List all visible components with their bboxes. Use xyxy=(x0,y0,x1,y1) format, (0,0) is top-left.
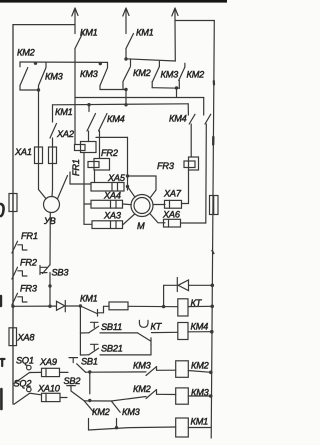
node dot xyxy=(48,284,51,287)
limit switch SQ1 xyxy=(14,365,31,383)
wire to XA4 xyxy=(84,203,91,205)
svg-text:М: М xyxy=(137,221,145,231)
node dot xyxy=(210,330,214,334)
svg-text:КМ1: КМ1 xyxy=(80,28,98,38)
svg-text:КМ1: КМ1 xyxy=(136,28,154,38)
wire control bus y306 xyxy=(13,305,57,307)
node dot xyxy=(87,103,90,106)
rail y59 xyxy=(126,59,175,61)
svg-text:FR1: FR1 xyxy=(21,231,38,241)
contactor coil KM2 xyxy=(176,361,189,378)
wire top horizontal to left rail xyxy=(13,24,75,26)
wire link x90 xyxy=(89,372,91,394)
svg-text:ХА8: ХА8 xyxy=(17,333,36,343)
svg-text:УВ: УВ xyxy=(43,216,56,226)
node dot xyxy=(37,88,40,91)
node dot xyxy=(209,394,213,398)
node dot xyxy=(79,304,82,307)
wire to FR2 xyxy=(99,131,101,159)
wire funnel mid xyxy=(51,190,54,197)
node dot xyxy=(124,103,127,106)
svg-text:SВ2: SВ2 xyxy=(64,376,81,386)
wire FR1 out xyxy=(83,153,85,225)
wire from bus A down at x126 xyxy=(125,90,127,105)
svg-text:КМ4: КМ4 xyxy=(169,114,187,124)
relay coil KM4 xyxy=(178,323,188,340)
contact KM1 (holding) xyxy=(80,306,103,316)
wire y90 right xyxy=(100,89,126,91)
left rail xyxy=(12,25,14,404)
wire y184 to brake tap xyxy=(70,183,91,185)
contact KM3 (row1) xyxy=(146,367,157,376)
wire motor lower right xyxy=(150,214,165,223)
thermal contact FR2 xyxy=(12,267,27,279)
svg-text:КМ2: КМ2 xyxy=(133,68,151,78)
svg-text:SВ11: SВ11 xyxy=(101,322,122,332)
wire to KM2 coil xyxy=(157,369,176,371)
svg-text:КМ3: КМ3 xyxy=(122,407,141,417)
svg-text:ХА10: ХА10 xyxy=(37,384,61,394)
wire FR3 feed upper xyxy=(187,104,189,115)
wire x204 down lower xyxy=(205,124,208,223)
svg-text:КМ3: КМ3 xyxy=(45,72,64,82)
svg-text:ХА5: ХА5 xyxy=(107,173,126,183)
node dot xyxy=(99,62,102,65)
contact KM1 (phase 1) xyxy=(75,34,83,63)
wire XA9 to SB1 xyxy=(60,371,69,373)
node dot xyxy=(124,88,127,91)
svg-text:FR2: FR2 xyxy=(20,258,37,268)
wire x75 vertical xyxy=(74,62,76,145)
wire KM2/KM3 bottoms xyxy=(20,89,39,91)
svg-text:FR1: FR1 xyxy=(71,159,81,176)
node dot xyxy=(11,305,14,308)
svg-text:КТ: КТ xyxy=(151,322,163,332)
wire KT contact to KM4 coil xyxy=(152,331,178,333)
wire SB2 out xyxy=(84,397,146,402)
contact KM2 (row2) xyxy=(146,390,157,399)
resistor (XA2 branch) xyxy=(49,147,57,164)
wire x80 down xyxy=(79,306,81,355)
resistor XA10 xyxy=(42,393,61,401)
resistor XA4 xyxy=(91,200,123,208)
bus smudge 2 xyxy=(212,137,215,145)
node dot xyxy=(210,305,214,309)
relay coil KT xyxy=(178,299,188,316)
node dot xyxy=(48,305,51,308)
resistor XA5 xyxy=(91,183,124,192)
bus A (y62) xyxy=(20,61,108,63)
node dot xyxy=(126,174,129,177)
wire FR label stub xyxy=(69,172,71,184)
fuse left xyxy=(9,194,17,212)
fuse right xyxy=(210,196,219,215)
bus tick xyxy=(212,251,214,254)
wire KT to bus xyxy=(188,305,212,307)
node dot xyxy=(209,371,213,375)
bus smudge 1 xyxy=(213,81,215,85)
contact KM2 (third) xyxy=(179,63,185,88)
resistor XA3 xyxy=(92,221,123,229)
right bus xyxy=(211,21,214,439)
svg-text:FR2: FR2 xyxy=(101,148,118,158)
node dot xyxy=(211,284,215,288)
contact KM4 (second pair) xyxy=(189,114,211,124)
button SB21 xyxy=(80,344,98,355)
wire diode branch xyxy=(164,284,177,286)
svg-text:ХА3: ХА3 xyxy=(103,211,122,221)
diode VD1 xyxy=(57,301,66,312)
node dot xyxy=(34,62,37,65)
contact KM3 (third) xyxy=(152,61,159,87)
node dot xyxy=(88,399,91,402)
wire L3 to right bus xyxy=(175,20,214,22)
wire y137 xyxy=(96,136,128,138)
wire y88 xyxy=(152,87,179,90)
contact KM2 (interlock) xyxy=(84,401,94,430)
wire XA1 down xyxy=(38,164,40,190)
wire XA2 down xyxy=(52,164,54,190)
svg-text:FR3: FR3 xyxy=(157,161,175,171)
button SB2 xyxy=(67,386,85,401)
wire to bus B xyxy=(176,88,178,97)
wire funnel right xyxy=(58,176,68,199)
svg-text:КМ1: КМ1 xyxy=(80,294,98,304)
thermal contact FR3 xyxy=(12,293,27,305)
button SB1 xyxy=(69,358,86,373)
button SB11 xyxy=(80,322,98,333)
wire up to KT contact xyxy=(150,344,152,355)
svg-text:КМ4: КМ4 xyxy=(107,114,125,124)
brake coil YB xyxy=(44,197,60,213)
svg-text:КМ2: КМ2 xyxy=(187,70,205,80)
fuse XA8 xyxy=(9,328,17,346)
phase arrow L3 xyxy=(172,8,178,21)
wire to motor top xyxy=(128,176,157,198)
button SB3 xyxy=(40,265,50,275)
resistor XA7 xyxy=(165,200,182,208)
wire KM4 to bus xyxy=(188,331,212,333)
node dot xyxy=(126,185,129,188)
contact KM1 (brake branch) xyxy=(50,105,57,147)
resistor XA9 xyxy=(42,368,60,376)
svg-text:КМ3: КМ3 xyxy=(80,69,99,79)
wire to KM3 coil xyxy=(157,393,176,395)
wire down to XA1 xyxy=(38,90,40,147)
resistor XA1 xyxy=(35,147,43,164)
wire resistor to KT xyxy=(128,305,178,307)
wire motor right xyxy=(153,204,165,206)
bottom rail xyxy=(89,427,176,430)
wire after diode xyxy=(65,305,80,307)
contactor coil KM1 xyxy=(176,418,189,437)
contact KM3 xyxy=(39,62,47,90)
wire XA3 to motor xyxy=(123,214,135,225)
svg-text:КМ3: КМ3 xyxy=(133,361,152,371)
top scan border xyxy=(0,0,227,3)
contact KM4 pair xyxy=(87,105,107,131)
wire KM1 coil to bus xyxy=(188,427,211,429)
wire diode branch vertical xyxy=(163,285,165,306)
wire FR2 out xyxy=(94,170,96,183)
svg-text:SВ1: SВ1 xyxy=(81,357,98,367)
wire x127 down xyxy=(127,137,129,190)
svg-text:SQ2: SQ2 xyxy=(14,379,32,389)
svg-text:КМ4: КМ4 xyxy=(191,322,209,332)
heater FR3 xyxy=(184,157,199,170)
phase arrow L1 xyxy=(72,8,78,34)
svg-text:ХА9: ХА9 xyxy=(39,357,57,367)
node dot xyxy=(115,426,118,429)
wire XA5 to motor xyxy=(128,187,135,197)
node dot xyxy=(88,370,91,373)
wire KM3 coil to bus xyxy=(188,395,210,397)
svg-text:ХА1: ХА1 xyxy=(14,147,32,157)
motor M xyxy=(131,195,153,217)
wire SB3 down xyxy=(49,273,51,307)
wire to XA3 xyxy=(84,223,92,225)
wire to KT coil xyxy=(104,305,110,307)
bus C (y104.8) xyxy=(53,104,189,105)
margin mark 1 xyxy=(1,204,4,216)
wire XA10 to SB2 xyxy=(60,397,67,399)
wire YB down xyxy=(49,213,51,265)
svg-text:ХА2: ХА2 xyxy=(56,129,74,139)
wire SQ2 to XA10 xyxy=(31,393,41,394)
svg-text:SВ3: SВ3 xyxy=(52,268,70,278)
contact KM3 (second) xyxy=(100,62,108,89)
svg-text:SQ1: SQ1 xyxy=(16,356,34,366)
resistor XA6 xyxy=(164,219,181,227)
margin mark 3 xyxy=(1,359,5,366)
heater FR1 xyxy=(75,142,97,153)
resistor (KM1 branch) xyxy=(109,302,128,310)
wire diode to bus xyxy=(189,284,212,286)
limit switch SQ2 xyxy=(14,387,31,404)
svg-text:КМ1: КМ1 xyxy=(191,417,209,427)
contact KM3 (interlock) xyxy=(111,401,120,428)
wire XA7 right xyxy=(182,203,189,205)
svg-text:КМ2: КМ2 xyxy=(191,361,209,371)
contact KM1 (phase 2) xyxy=(126,34,134,60)
contactor coil KM3 xyxy=(176,388,189,404)
wire SQ1 to XA9 xyxy=(31,371,41,373)
thermal contact FR1 xyxy=(12,241,27,253)
svg-text:ХА6: ХА6 xyxy=(162,210,181,220)
contact KM2 (second) xyxy=(123,59,131,90)
svg-text:ХА7: ХА7 xyxy=(163,189,182,199)
node dot xyxy=(124,57,127,60)
heater FR2 xyxy=(88,159,110,171)
contact KM2 xyxy=(20,62,28,90)
svg-text:SВ21: SВ21 xyxy=(101,344,123,354)
svg-text:КМ3: КМ3 xyxy=(161,70,180,80)
wire XA4 to motor xyxy=(123,203,132,206)
wire FR3 down xyxy=(188,170,190,204)
wire KM2 coil to bus xyxy=(188,371,211,373)
diode VD2 xyxy=(177,278,188,292)
wire FR3 feed lower xyxy=(190,124,192,157)
svg-text:FR3: FR3 xyxy=(20,284,38,294)
wire to FR1 xyxy=(88,131,90,142)
node dot xyxy=(162,305,165,308)
svg-text:КМ2: КМ2 xyxy=(92,407,110,417)
margin mark 4 xyxy=(0,389,3,409)
bus B (y97.5) xyxy=(75,97,204,99)
wire funnel left xyxy=(39,190,47,199)
node dot xyxy=(175,86,178,89)
margin mark 2 xyxy=(0,296,2,306)
time contact KT xyxy=(138,320,152,344)
svg-text:КМ1: КМ1 xyxy=(55,107,73,117)
wire L3 down xyxy=(174,21,176,61)
wire x204 down upper xyxy=(203,98,205,116)
svg-text:КМ2: КМ2 xyxy=(133,384,151,394)
wire SB1 out xyxy=(86,371,146,373)
phase arrow L2 xyxy=(123,8,129,34)
wire SB11 to KT contact xyxy=(100,332,138,334)
svg-text:КМ2: КМ2 xyxy=(17,48,35,58)
wire SB21 right xyxy=(100,354,151,356)
wire XA6 right xyxy=(181,222,206,224)
svg-text:ХА4: ХА4 xyxy=(103,191,121,201)
